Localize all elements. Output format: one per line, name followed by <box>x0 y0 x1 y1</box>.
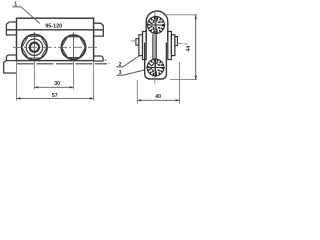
right bolt tip <box>175 37 178 46</box>
svg-text:57: 57 <box>52 93 58 99</box>
dim 44 line <box>195 15 197 80</box>
conductor stub bottom-right tab <box>94 56 104 61</box>
dim 30 extension lines <box>33 62 35 89</box>
bolt B1 shank ring <box>30 43 39 52</box>
bolt shank <box>152 34 154 59</box>
dim 30 line <box>34 86 73 88</box>
leader line for label 1 <box>21 7 40 24</box>
horizontal center line <box>13 46 98 48</box>
bolt axis stub left <box>131 40 136 42</box>
bolt B1 outer washer circle <box>22 35 47 60</box>
left nut <box>139 35 143 56</box>
bolt vertical center line <box>154 10 156 83</box>
svg-text:95-120: 95-120 <box>45 23 62 29</box>
bolt axis stub right <box>177 42 182 44</box>
bolt B1 vertical center line <box>33 32 35 62</box>
side view outline bottom loop <box>145 43 167 80</box>
right nut <box>171 35 175 56</box>
bolt B2 hexagon <box>62 37 86 58</box>
conductor stub top-right tab <box>94 23 104 36</box>
bolt B1 middle circle <box>26 39 42 55</box>
stray dash right of bottom tab <box>105 59 107 61</box>
seam line between clamp plates <box>6 29 103 31</box>
leader line for label 2 <box>123 56 140 67</box>
clamp body front view outline <box>17 18 94 60</box>
conductor stub bottom-left tab <box>6 55 16 61</box>
bolt B2 head circle <box>61 35 85 59</box>
svg-text:40: 40 <box>155 94 161 100</box>
dim 57 line <box>17 97 94 99</box>
top conductor knurled circle <box>147 16 166 35</box>
leader line for label 3 <box>123 70 144 75</box>
left side plate <box>143 32 147 60</box>
left bolt tip <box>136 39 139 46</box>
side view outline top cap <box>146 11 168 41</box>
conductor stub top-left tab <box>6 22 16 35</box>
stray dot on hidden line <box>109 62 110 64</box>
right side plate <box>168 32 172 60</box>
lower-left bracket piece <box>4 61 17 73</box>
bolt B1 hex head <box>22 36 47 58</box>
svg-text:30: 30 <box>54 81 60 87</box>
dim 40 extension lines <box>136 80 138 104</box>
dim 44 extension lines <box>163 14 197 16</box>
hidden edge dashed line under body <box>17 63 107 65</box>
svg-text:44: 44 <box>186 46 192 52</box>
bottom conductor knurled circle <box>146 58 165 77</box>
bolt B2 vertical center line <box>73 33 75 63</box>
dim 40 line <box>137 99 179 101</box>
dim 57 extension lines <box>16 61 18 101</box>
